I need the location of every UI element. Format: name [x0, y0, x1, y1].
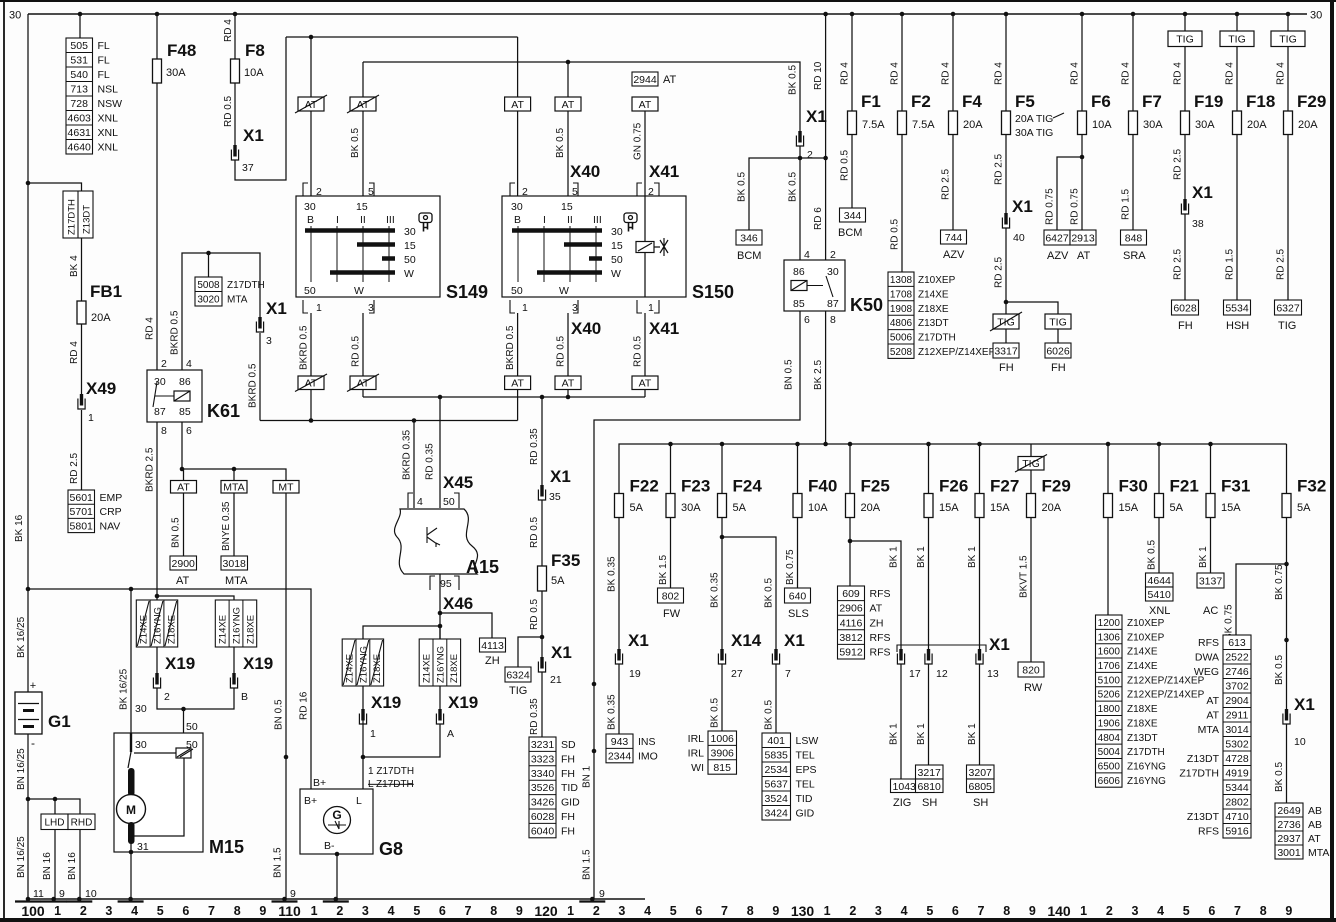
wire RD 0.5 [541, 500, 543, 566]
svg-text:RFS: RFS [1198, 637, 1219, 649]
code TIG [1045, 314, 1071, 329]
svg-text:1: 1 [522, 302, 528, 314]
svg-text:IMO: IMO [638, 750, 658, 762]
connector X1 bracket 17/12/13 [897, 645, 986, 652]
svg-text:3317: 3317 [994, 346, 1018, 358]
fuse F2 7.5A [898, 111, 907, 135]
svg-text:30: 30 [135, 703, 147, 715]
svg-text:1800: 1800 [1098, 704, 1121, 715]
code 6026 [1045, 343, 1071, 358]
svg-text:31: 31 [137, 841, 149, 853]
wire bus to F27 [979, 444, 981, 494]
svg-text:RD 4: RD 4 [1070, 62, 1081, 85]
svg-text:RD 2.5: RD 2.5 [1276, 248, 1287, 280]
ground junction [334, 897, 339, 902]
ground junction [282, 897, 287, 902]
code AT [171, 481, 197, 494]
wire RD 4 F4 [952, 14, 954, 111]
wire G8 B- ground [336, 854, 338, 899]
code 1043 [891, 779, 919, 793]
svg-text:F2: F2 [911, 92, 931, 111]
svg-text:BK 1: BK 1 [889, 546, 900, 568]
svg-text:MTA: MTA [1198, 724, 1219, 736]
svg-text:5206: 5206 [1098, 690, 1121, 701]
junction [823, 156, 828, 161]
svg-text:FH: FH [999, 362, 1014, 374]
junction on bus 30 [1080, 12, 1085, 17]
svg-text:10A: 10A [244, 67, 264, 79]
connector X19 pin 1 [359, 709, 366, 724]
svg-text:TIG: TIG [1176, 34, 1194, 46]
code MTA [221, 481, 247, 494]
svg-text:FL: FL [98, 69, 110, 81]
svg-text:FH: FH [561, 753, 575, 765]
svg-text:RD 4: RD 4 [1121, 62, 1132, 85]
junction on fuse bus [1157, 442, 1162, 447]
svg-text:9: 9 [516, 904, 523, 918]
wire A15 pin 95 [439, 574, 441, 639]
fuse F23 30A [666, 494, 675, 518]
svg-text:50: 50 [511, 285, 523, 297]
svg-text:744: 744 [945, 232, 963, 244]
junction on bus 30 [1235, 12, 1240, 17]
svg-text:3: 3 [1132, 904, 1139, 918]
junction on bus 30 [1183, 12, 1188, 17]
svg-text:AT: AT [639, 378, 652, 390]
junction on bus 30 [1004, 12, 1009, 17]
svg-text:AT: AT [663, 74, 677, 86]
svg-text:5208: 5208 [890, 347, 913, 358]
svg-text:RD 0.5: RD 0.5 [529, 516, 540, 548]
svg-text:AT: AT [1308, 833, 1321, 845]
svg-text:RFS: RFS [870, 632, 891, 644]
wire [439, 626, 441, 639]
wire BK 0.35 [618, 518, 620, 651]
svg-text:20A: 20A [1042, 502, 1062, 514]
svg-text:3526: 3526 [531, 782, 555, 794]
wire branch to X1-17 [850, 541, 901, 650]
wire [1030, 444, 1032, 457]
svg-text:1: 1 [54, 904, 61, 918]
svg-text:RD 16: RD 16 [299, 691, 310, 720]
terminal list 1308 [888, 272, 996, 358]
junction [566, 60, 571, 65]
svg-text:4806: 4806 [890, 318, 913, 329]
svg-text:BKRD 0.5: BKRD 0.5 [505, 325, 516, 370]
svg-text:3424: 3424 [765, 808, 789, 820]
svg-text:II: II [567, 214, 573, 226]
wire to 50-bus [310, 390, 312, 421]
svg-text:BN 1.5: BN 1.5 [273, 847, 284, 878]
wire RD 0.5 [851, 135, 853, 209]
svg-text:B: B [514, 214, 521, 226]
svg-text:RD 2.5: RD 2.5 [1173, 248, 1184, 280]
fuse F25 20A [846, 494, 855, 518]
svg-text:M: M [126, 803, 136, 817]
svg-text:X40: X40 [570, 162, 600, 181]
relay K50 [784, 260, 845, 311]
svg-text:RD 0.5: RD 0.5 [529, 598, 540, 630]
svg-text:120: 120 [534, 903, 558, 919]
svg-text:Z14XE: Z14XE [1127, 647, 1158, 658]
svg-text:Z14XE: Z14XE [918, 289, 949, 300]
svg-text:BKRD 0.35: BKRD 0.35 [402, 430, 413, 480]
svg-text:2: 2 [161, 358, 167, 370]
svg-text:RFS: RFS [1198, 826, 1219, 838]
A15 internal symbol [427, 527, 440, 547]
svg-text:RD 4: RD 4 [890, 62, 901, 85]
svg-text:5701: 5701 [70, 506, 94, 518]
wire BK 0.35 [618, 664, 620, 734]
svg-text:6: 6 [439, 904, 446, 918]
wire [233, 469, 235, 481]
svg-text:50: 50 [186, 721, 198, 733]
code 2944 [632, 72, 658, 86]
svg-text:20A: 20A [1298, 119, 1318, 131]
svg-text:BK 4: BK 4 [69, 255, 80, 277]
svg-text:35: 35 [549, 491, 561, 503]
svg-text:BK 0.5: BK 0.5 [555, 128, 566, 158]
junction [361, 755, 366, 760]
connector X1 pin 10 [1283, 709, 1290, 724]
wire W-bus [363, 396, 645, 398]
wire BK 0.75 F32 [1286, 518, 1288, 711]
svg-text:5A: 5A [1170, 502, 1184, 514]
svg-text:X1: X1 [1192, 183, 1213, 202]
svg-text:15A: 15A [939, 502, 959, 514]
svg-text:37: 37 [242, 162, 254, 174]
wire BK 0.5 [721, 664, 723, 731]
code 6324 [505, 667, 531, 682]
svg-text:RD 2.5: RD 2.5 [69, 452, 80, 484]
svg-text:5008: 5008 [197, 280, 220, 291]
svg-text:5100: 5100 [1098, 675, 1121, 686]
ground tick bar [66, 900, 92, 902]
wire battery positive rail BK [27, 14, 29, 692]
svg-text:9: 9 [599, 888, 605, 900]
svg-text:2900: 2900 [172, 558, 196, 570]
wire BK 0.5 [775, 664, 777, 733]
svg-text:Z17DTH: Z17DTH [918, 333, 956, 344]
wire to S149 pin 2 [310, 37, 312, 97]
svg-text:Z10XEP: Z10XEP [918, 275, 956, 286]
svg-text:X1: X1 [989, 635, 1010, 654]
wire BK 2.5 K50 pin8 to fuse bus [825, 311, 827, 444]
svg-text:IRL: IRL [688, 733, 705, 745]
svg-text:4640: 4640 [68, 142, 92, 154]
wire RD 0.5 [901, 135, 903, 273]
svg-text:AT: AT [1077, 250, 1091, 262]
svg-text:BN 16: BN 16 [67, 852, 78, 880]
svg-text:1: 1 [1080, 904, 1087, 918]
wire [54, 799, 56, 814]
svg-text:RD 1.5: RD 1.5 [1225, 248, 1236, 280]
connector X14 pin 27 [718, 649, 725, 664]
junction [720, 535, 725, 540]
svg-text:30: 30 [511, 201, 523, 213]
svg-text:SH: SH [922, 797, 937, 809]
svg-text:4: 4 [417, 496, 423, 508]
svg-text:TIG: TIG [1278, 320, 1296, 332]
svg-text:F7: F7 [1142, 92, 1162, 111]
svg-text:BK 0.35: BK 0.35 [710, 572, 721, 608]
wire to fuse list [79, 14, 81, 38]
svg-text:2: 2 [648, 186, 654, 198]
svg-text:X45: X45 [443, 473, 473, 492]
svg-text:GID: GID [561, 797, 580, 809]
wire BK 0.5 [1286, 724, 1288, 803]
svg-text:BK 0.5: BK 0.5 [788, 172, 799, 202]
svg-text:5801: 5801 [70, 520, 94, 532]
svg-text:BK 1: BK 1 [1198, 546, 1209, 568]
svg-text:7: 7 [208, 904, 215, 918]
svg-text:L: L [356, 795, 362, 807]
svg-text:B-: B- [324, 840, 335, 852]
ground tick bar [272, 900, 298, 902]
svg-text:6: 6 [952, 904, 959, 918]
svg-text:1200: 1200 [1098, 618, 1121, 629]
box LHD [41, 814, 68, 830]
svg-text:2904: 2904 [1225, 695, 1249, 707]
svg-text:15A: 15A [990, 502, 1010, 514]
fuse F19 30A [1181, 111, 1190, 135]
svg-text:8: 8 [234, 904, 241, 918]
svg-text:640: 640 [789, 591, 807, 603]
wire branch to FB1 [28, 183, 82, 191]
svg-text:F32: F32 [1297, 477, 1326, 496]
coordinate ruler numbers [21, 903, 1292, 919]
svg-text:30: 30 [9, 10, 21, 22]
wire RD 1.5 [1236, 135, 1238, 301]
svg-text:BK 16/25: BK 16/25 [16, 616, 27, 658]
svg-text:ZH: ZH [485, 655, 500, 667]
connector X1 pin 38 [1181, 199, 1188, 214]
svg-text:3: 3 [875, 904, 882, 918]
svg-text:6: 6 [1208, 904, 1215, 918]
svg-text:RD 0.75: RD 0.75 [1045, 188, 1056, 225]
svg-text:AZV: AZV [943, 249, 965, 261]
svg-text:140: 140 [1047, 903, 1071, 919]
svg-text:Z17DTH: Z17DTH [67, 199, 78, 235]
svg-text:Z10XEP: Z10XEP [1127, 632, 1165, 643]
wire BK 1.5 [670, 518, 672, 589]
svg-text:21: 21 [550, 674, 562, 686]
svg-text:7: 7 [721, 904, 728, 918]
svg-text:6028: 6028 [1173, 303, 1197, 315]
svg-text:RW: RW [1024, 682, 1043, 694]
terminal list 505 FL [66, 38, 122, 154]
svg-text:Z17DTH: Z17DTH [1179, 768, 1219, 780]
terminal list 613 [1179, 635, 1251, 838]
svg-text:BK 16: BK 16 [14, 514, 25, 542]
wire RD 0.35 [541, 672, 543, 737]
svg-text:F1: F1 [861, 92, 881, 111]
wire [310, 111, 312, 196]
svg-text:7.5A: 7.5A [912, 119, 935, 131]
svg-text:F19: F19 [1194, 92, 1223, 111]
svg-text:TIG: TIG [1279, 34, 1297, 46]
svg-text:Z18XE: Z18XE [449, 654, 460, 683]
svg-text:1708: 1708 [890, 289, 913, 300]
svg-text:X19: X19 [448, 693, 478, 712]
svg-text:AT: AT [562, 378, 575, 390]
svg-text:HSH: HSH [1226, 320, 1249, 332]
svg-text:85: 85 [793, 298, 805, 310]
svg-text:BN 1: BN 1 [582, 765, 593, 788]
svg-text:LHD: LHD [44, 818, 64, 829]
svg-text:RD 2.5: RD 2.5 [994, 153, 1005, 185]
svg-text:1: 1 [824, 904, 831, 918]
svg-text:1 Z17DTH: 1 Z17DTH [368, 766, 414, 777]
svg-text:4644: 4644 [1148, 575, 1172, 587]
svg-text:FW: FW [663, 608, 681, 620]
code 5410 [1146, 587, 1174, 601]
svg-text:5912: 5912 [839, 647, 863, 659]
svg-text:RD 4: RD 4 [1225, 62, 1236, 85]
svg-text:6028: 6028 [531, 811, 555, 823]
svg-text:2344: 2344 [608, 750, 632, 762]
svg-text:AT: AT [562, 99, 575, 111]
junction [540, 635, 545, 640]
svg-text:Z16YNG: Z16YNG [1127, 762, 1166, 773]
svg-text:III: III [593, 214, 602, 226]
svg-text:2: 2 [336, 904, 343, 918]
svg-text:2944: 2944 [633, 74, 657, 86]
ground tick bar [41, 900, 67, 902]
junction on bus 30 [1286, 12, 1291, 17]
junction on bus 30 [823, 12, 828, 17]
variant cells X19 crossed [342, 639, 383, 686]
svg-text:30: 30 [135, 739, 147, 751]
ground tick bar [15, 900, 41, 902]
wire RD 4 F2 [901, 14, 903, 111]
wire RD 10 from bus [825, 14, 827, 260]
connector X45 bracket [408, 493, 459, 508]
code 3207 [967, 765, 995, 779]
svg-text:4804: 4804 [1098, 733, 1121, 744]
wire RD 4 [81, 324, 83, 394]
box RHD [68, 814, 95, 830]
fuse F21 5A [1155, 494, 1164, 518]
svg-text:FB1: FB1 [90, 282, 122, 301]
svg-text:Z13DT: Z13DT [918, 318, 949, 329]
splice [592, 749, 597, 754]
wire RD 2.5 [1184, 135, 1186, 201]
junction on fuse bus [668, 442, 673, 447]
wire RD 2.5 [1005, 135, 1007, 215]
svg-text:30: 30 [827, 266, 839, 278]
svg-text:3207: 3207 [969, 767, 993, 779]
junction [129, 587, 134, 592]
svg-text:B: B [241, 691, 248, 703]
svg-text:9: 9 [259, 904, 266, 918]
svg-text:20A TIG: 20A TIG [1015, 113, 1053, 125]
svg-text:CRP: CRP [100, 506, 122, 518]
svg-text:F27: F27 [990, 477, 1019, 496]
svg-text:2: 2 [164, 691, 170, 703]
svg-text:B: B [307, 214, 314, 226]
svg-text:X1: X1 [551, 643, 572, 662]
svg-text:5534: 5534 [1225, 303, 1249, 315]
svg-text:G: G [332, 808, 341, 822]
ground junction [128, 897, 133, 902]
wire BK 1 F27 [979, 518, 981, 651]
wire K50 coil ground [594, 311, 800, 899]
svg-text:SLS: SLS [788, 608, 809, 620]
svg-text:F23: F23 [681, 477, 710, 496]
svg-text:5A: 5A [630, 502, 644, 514]
svg-text:AT: AT [511, 99, 524, 111]
fuse F48 30A [153, 59, 162, 83]
junction [129, 850, 134, 855]
svg-text:15: 15 [561, 201, 573, 213]
svg-text:5: 5 [572, 186, 578, 198]
terminal list 609 [838, 586, 891, 659]
svg-text:F21: F21 [1170, 477, 1199, 496]
svg-text:13: 13 [987, 668, 999, 680]
svg-text:TIG: TIG [509, 685, 527, 697]
svg-text:9: 9 [1285, 904, 1292, 918]
wire X41 pin2 inside S150 [644, 196, 646, 242]
code 6327 [1275, 300, 1302, 315]
wire RD 2.5 [952, 135, 954, 231]
svg-text:85: 85 [179, 406, 191, 418]
svg-text:RHD: RHD [71, 818, 93, 829]
svg-text:F18: F18 [1246, 92, 1275, 111]
starter motor M15 [114, 733, 203, 852]
variant cells X19 [215, 600, 256, 647]
svg-text:FH: FH [1051, 362, 1066, 374]
connector X19 pin 2 [153, 673, 160, 688]
svg-text:943: 943 [611, 736, 629, 748]
svg-text:F6: F6 [1091, 92, 1111, 111]
svg-text:3137: 3137 [1199, 576, 1223, 588]
svg-text:9: 9 [59, 888, 65, 900]
wire M15 solenoid to pin31 [131, 758, 184, 836]
wire RD 2.5 [81, 410, 83, 490]
code 344 [840, 208, 866, 222]
wire MT ground BN [285, 493, 287, 899]
junction [26, 797, 31, 802]
svg-text:X1: X1 [784, 631, 805, 650]
svg-text:Z17DTH: Z17DTH [227, 280, 265, 291]
wire [233, 647, 235, 674]
svg-text:F29: F29 [1297, 92, 1326, 111]
svg-text:4631: 4631 [68, 127, 92, 139]
svg-text:F48: F48 [167, 41, 196, 60]
code 4113 [480, 638, 506, 652]
wire F30 to terminal list [1107, 518, 1109, 616]
wire RD 4 F6 [1081, 14, 1083, 111]
wire to terminal list [849, 518, 851, 587]
svg-text:BN 16/25: BN 16/25 [16, 748, 27, 790]
svg-text:G1: G1 [48, 712, 71, 731]
code AT crossed [295, 95, 327, 113]
svg-text:RD 0.5: RD 0.5 [840, 149, 851, 181]
wire inside S150 [644, 253, 646, 298]
svg-text:BKVT 1.5: BKVT 1.5 [1019, 555, 1030, 598]
code 744 [941, 230, 967, 244]
variant cells X19 crossed [136, 600, 177, 647]
connector X49 pin 1 [78, 394, 85, 409]
junction [206, 251, 211, 256]
svg-text:TIG: TIG [1228, 34, 1246, 46]
svg-text:8: 8 [747, 904, 754, 918]
svg-text:30: 30 [404, 226, 416, 238]
svg-text:6: 6 [182, 904, 189, 918]
svg-text:802: 802 [662, 591, 680, 603]
svg-text:K50: K50 [850, 295, 883, 315]
